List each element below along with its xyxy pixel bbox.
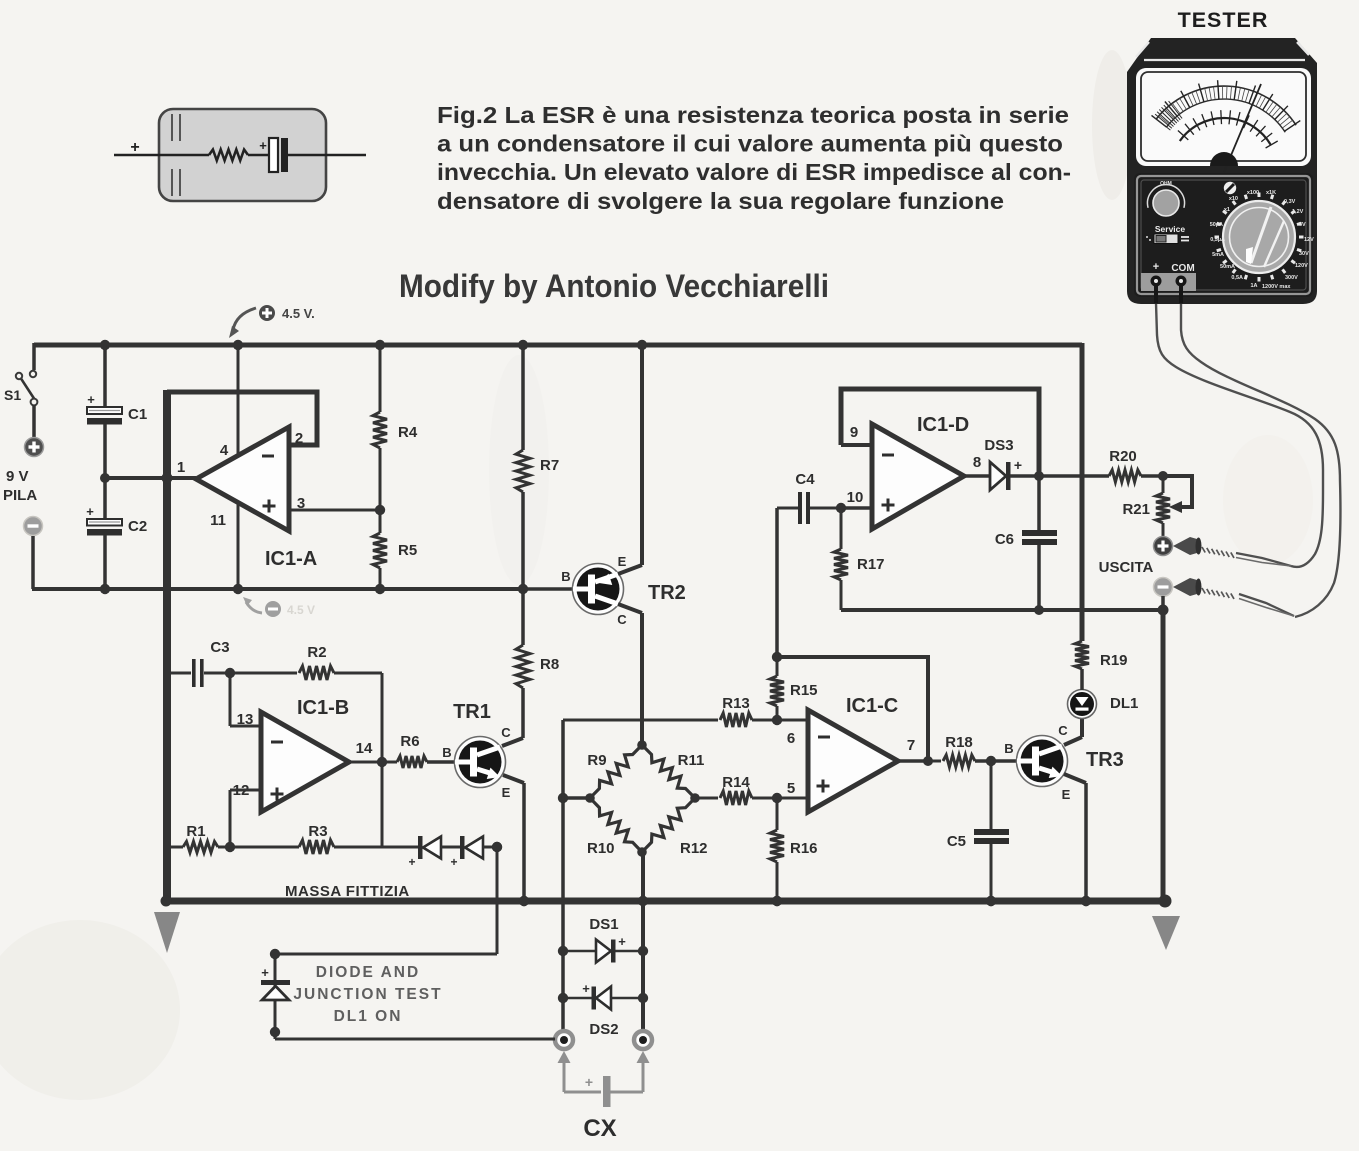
svg-text:C: C: [1058, 723, 1068, 738]
svg-text:TR2: TR2: [648, 582, 686, 604]
svg-text:IC1-A: IC1-A: [265, 548, 317, 570]
svg-text:a un condensatore il cui valor: a un condensatore il cui valore aumenta …: [437, 131, 1063, 157]
svg-text:1A: 1A: [1250, 283, 1257, 289]
svg-text:E: E: [502, 785, 511, 800]
svg-text:R2: R2: [307, 644, 326, 661]
svg-text:1: 1: [177, 459, 185, 476]
svg-text:+: +: [87, 392, 95, 407]
svg-text:+: +: [86, 504, 94, 519]
svg-text:B: B: [1004, 741, 1013, 756]
svg-text:R16: R16: [790, 840, 818, 857]
svg-text:JUNCTION TEST: JUNCTION TEST: [293, 986, 442, 1003]
svg-text:50µA: 50µA: [1210, 222, 1223, 228]
svg-text:R11: R11: [678, 752, 705, 769]
svg-text:S1: S1: [4, 387, 21, 403]
svg-text:USCITA: USCITA: [1099, 559, 1154, 576]
svg-text:B: B: [442, 745, 451, 760]
svg-text:4.5 V.: 4.5 V.: [282, 306, 315, 321]
svg-text:9: 9: [850, 424, 858, 441]
svg-text:+: +: [130, 139, 139, 156]
svg-text:C5: C5: [947, 833, 966, 850]
svg-text:0,5µA: 0,5µA: [1210, 237, 1225, 243]
svg-text:x100: x100: [1247, 190, 1259, 196]
svg-text:9 V: 9 V: [6, 468, 29, 485]
svg-text:14: 14: [356, 740, 373, 757]
svg-text:4.5 V: 4.5 V: [287, 603, 315, 617]
svg-text:C1: C1: [128, 406, 147, 423]
svg-text:IC1-B: IC1-B: [297, 697, 349, 719]
svg-text:R6: R6: [400, 733, 419, 750]
svg-text:C: C: [501, 725, 511, 740]
svg-text:C: C: [617, 612, 627, 627]
svg-text:TR1: TR1: [453, 701, 491, 723]
svg-text:DS2: DS2: [589, 1021, 618, 1038]
svg-text:30V: 30V: [1299, 251, 1309, 257]
svg-text:3V: 3V: [1299, 222, 1306, 228]
svg-text:300V: 300V: [1285, 275, 1298, 281]
svg-text:4: 4: [220, 442, 229, 459]
svg-text:C3: C3: [210, 639, 229, 656]
svg-text:DIODE AND: DIODE AND: [316, 964, 420, 981]
svg-text:IC1-C: IC1-C: [846, 695, 898, 717]
svg-text:50mA: 50mA: [1220, 264, 1235, 270]
svg-text:R8: R8: [540, 656, 559, 673]
svg-text:+: +: [1014, 457, 1022, 473]
svg-text:R18: R18: [945, 734, 973, 751]
svg-text:+: +: [259, 138, 267, 153]
svg-text:+: +: [585, 1074, 593, 1090]
svg-text:2: 2: [295, 430, 303, 447]
svg-text:x1: x1: [1224, 207, 1230, 213]
svg-text:TESTER: TESTER: [1178, 8, 1269, 32]
svg-text:+: +: [618, 934, 626, 949]
svg-text:R13: R13: [722, 695, 750, 712]
svg-text:C4: C4: [795, 471, 815, 488]
svg-text:PILA: PILA: [3, 487, 37, 504]
svg-text:E: E: [618, 554, 627, 569]
svg-text:DS1: DS1: [589, 916, 618, 933]
svg-text:11: 11: [210, 512, 226, 529]
svg-text:Modify by Antonio Vecchiarelli: Modify by Antonio Vecchiarelli: [399, 268, 829, 304]
svg-text:invecchia. Un elevato valore d: invecchia. Un elevato valore di ESR impe…: [437, 159, 1071, 185]
svg-text:13: 13: [237, 711, 254, 728]
svg-text:+: +: [408, 855, 415, 869]
svg-text:120V: 120V: [1295, 263, 1308, 269]
svg-text:R5: R5: [398, 542, 417, 559]
svg-text:CX: CX: [583, 1115, 616, 1142]
svg-text:R20: R20: [1109, 448, 1137, 465]
svg-text:DL1 ON: DL1 ON: [334, 1008, 403, 1025]
svg-text:densatore di svolgere la sua r: densatore di svolgere la sua regolare fu…: [437, 188, 1004, 214]
svg-text:5mA: 5mA: [1212, 252, 1224, 258]
svg-text:Fig.2 La ESR è una resistenza: Fig.2 La ESR è una resistenza teorica po…: [437, 102, 1069, 128]
svg-text:R12: R12: [680, 840, 708, 857]
svg-text:1200V max: 1200V max: [1262, 284, 1291, 290]
svg-text:5: 5: [787, 780, 795, 797]
svg-text:R14: R14: [722, 774, 750, 791]
svg-text:R9: R9: [587, 752, 606, 769]
svg-text:6: 6: [787, 730, 795, 747]
svg-text:R15: R15: [790, 682, 818, 699]
svg-text:0,3V: 0,3V: [1284, 199, 1296, 205]
svg-text:C2: C2: [128, 518, 147, 535]
svg-text:+: +: [261, 965, 269, 980]
svg-text:0,5A: 0,5A: [1231, 275, 1243, 281]
svg-text:MASSA FITTIZIA: MASSA FITTIZIA: [285, 883, 410, 900]
svg-text:7: 7: [907, 737, 915, 754]
svg-text:x1K: x1K: [1266, 190, 1276, 196]
svg-text:1,2V: 1,2V: [1292, 209, 1304, 215]
svg-text:COM: COM: [1171, 263, 1194, 274]
svg-text:8: 8: [973, 454, 981, 471]
svg-text:R17: R17: [857, 556, 885, 573]
svg-text:R10: R10: [587, 840, 615, 857]
svg-text:R21: R21: [1122, 501, 1150, 518]
svg-text:Service: Service: [1155, 224, 1186, 234]
svg-text:R3: R3: [308, 823, 327, 840]
svg-text:10: 10: [847, 489, 864, 506]
svg-text:12V: 12V: [1304, 237, 1314, 243]
svg-text:+: +: [1153, 261, 1159, 273]
svg-text:DL1: DL1: [1110, 695, 1138, 712]
svg-text:R4: R4: [398, 424, 418, 441]
svg-text:R19: R19: [1100, 652, 1128, 669]
svg-text:R7: R7: [540, 457, 559, 474]
svg-text:C6: C6: [995, 531, 1014, 548]
svg-text:DS3: DS3: [984, 437, 1013, 454]
svg-text:R1: R1: [186, 823, 205, 840]
svg-text:IC1-D: IC1-D: [917, 414, 969, 436]
svg-text:+: +: [450, 855, 457, 869]
svg-text:TR3: TR3: [1086, 749, 1124, 771]
svg-text:+: +: [582, 981, 590, 996]
svg-text:x10: x10: [1229, 196, 1238, 202]
svg-text:B: B: [561, 569, 570, 584]
svg-text:E: E: [1062, 787, 1071, 802]
